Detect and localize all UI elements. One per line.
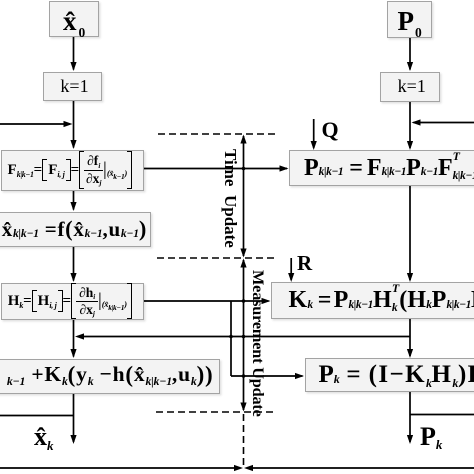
wire left feedback k+1 (0, 123, 70, 125)
box P0 initial covariance (387, 1, 432, 38)
time update span arrow (243, 136, 245, 256)
junction dots (242, 167, 246, 171)
wire F box to predict box (73, 191, 75, 210)
wire output branch left (0, 415, 74, 417)
wire P0 to k=1 right (409, 38, 411, 70)
box K gain (271, 282, 474, 319)
wire k=1 to Ppred box (409, 102, 411, 149)
box k=1 right (380, 72, 440, 102)
box P update (305, 358, 474, 392)
wire k=1 to F box (73, 101, 75, 148)
label xk output (34, 422, 53, 452)
box x0 initial state (49, 1, 99, 37)
dashed center vertical (243, 414, 245, 467)
label R noise (297, 251, 312, 276)
wire predict box to H box (73, 247, 75, 281)
wire bottom left (0, 467, 234, 469)
wire H tap to Pupd box (231, 375, 303, 377)
wire Ppred to K box (409, 186, 411, 280)
label Q noise (322, 117, 339, 143)
arrowheads (70, 62, 76, 71)
wire K feedback to update (78, 336, 411, 338)
wire H box to K box (144, 300, 269, 302)
wire F box to Ppred box (144, 168, 287, 170)
dashed separator top (158, 133, 275, 135)
wire R into K box (290, 258, 292, 280)
label time update (220, 149, 240, 248)
label measurement update (248, 270, 268, 417)
box H jacobian (1, 283, 145, 321)
measurement update span arrow (243, 260, 245, 410)
wire H tap down (230, 301, 232, 376)
wire output branch right (410, 414, 474, 416)
wire Pupd output (409, 392, 411, 442)
box F jacobian (1, 150, 145, 191)
wire K box to Pupd box (409, 319, 411, 357)
dashed separator middle (157, 257, 278, 259)
box k=1 left (43, 72, 102, 102)
box state update (0, 359, 220, 394)
wire right feedback k+1 (414, 122, 474, 124)
box P predict (289, 150, 474, 186)
wire x0 to k=1 left (73, 37, 75, 70)
box predict state (0, 212, 151, 248)
wire Q into Ppred (313, 119, 315, 148)
wire bottom right (253, 467, 474, 469)
label Pk output (420, 422, 442, 452)
dashed separator bottom (156, 411, 275, 413)
wire update box output (73, 394, 75, 443)
wire H box to update box (73, 320, 75, 357)
